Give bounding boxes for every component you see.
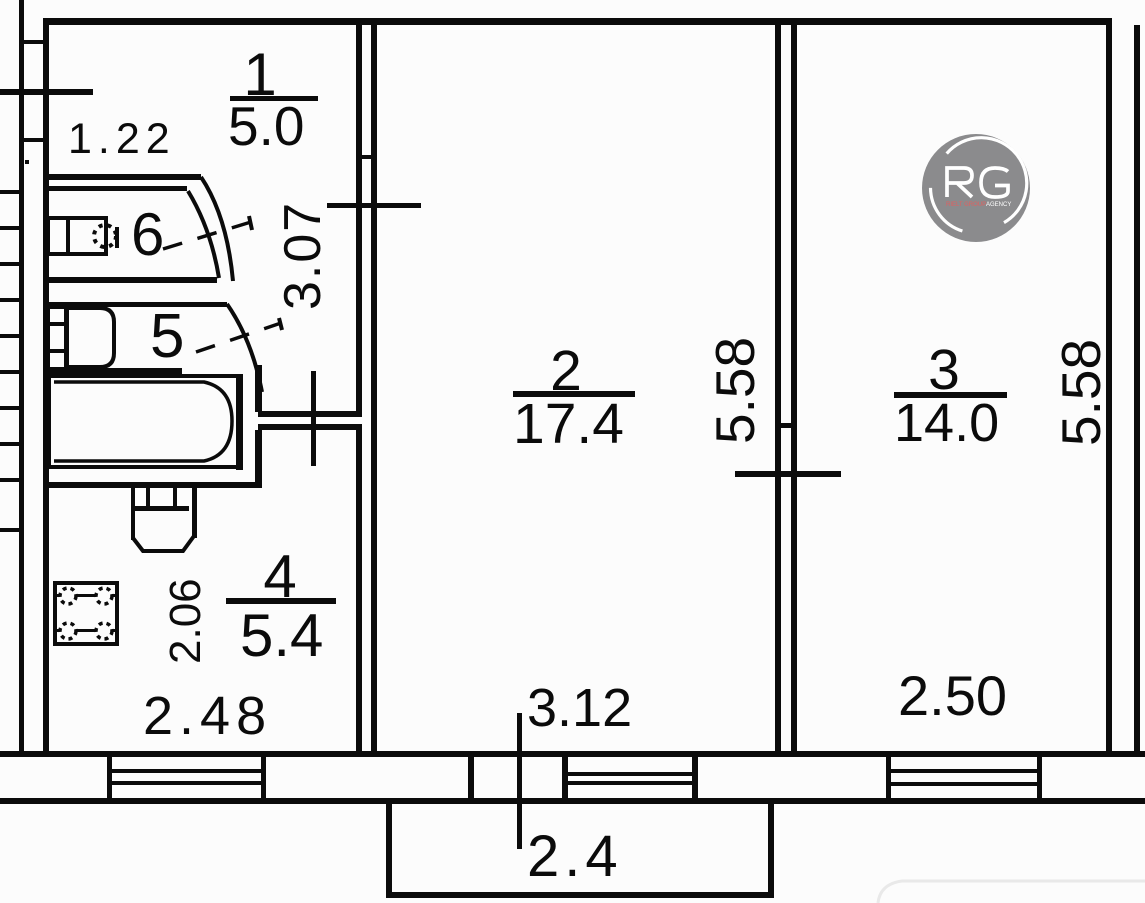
svg-text:2.48: 2.48: [143, 686, 272, 746]
stove row line bottom: [57, 629, 115, 632]
svg-text:5.4: 5.4: [240, 602, 323, 669]
hall-room2 wall right line: [371, 25, 377, 752]
hall wall upper segment: [255, 365, 262, 412]
stove row line top: [57, 594, 115, 597]
balcony window cap right: [692, 757, 698, 798]
apartment left wall: [43, 18, 49, 757]
stair ladder tick 4: [0, 298, 24, 302]
svg-text:17.4: 17.4: [513, 392, 624, 456]
wall tie tick lower: [19, 138, 49, 142]
room2-room3 wall left line: [775, 25, 781, 752]
toilet room top wall outer: [45, 174, 201, 180]
toilet door leaf end tick: [249, 216, 252, 230]
svg-text:2.50: 2.50: [898, 664, 1007, 727]
toilet door arc outer: [201, 177, 233, 281]
room2-room3 wall right line: [791, 25, 797, 752]
toilet door arc inner: [188, 191, 219, 278]
bottom wall inner line: [0, 798, 1145, 804]
stove burner TR: [96, 588, 112, 604]
washbasin shelf cells: [48, 307, 66, 369]
stove outline: [55, 583, 117, 644]
kitchen sink bowl bottom: [133, 536, 194, 551]
balcony window pane line 1: [568, 772, 692, 776]
RG logo: [922, 134, 1030, 242]
window room3 pane line 2: [891, 782, 1037, 786]
window room3 cap left: [886, 757, 891, 798]
window kitchen pane line 2: [112, 781, 261, 785]
logo arc long: [947, 138, 1027, 223]
toilet door leaf dashed: [163, 222, 251, 249]
washbasin bowl: [67, 308, 114, 367]
stair ladder tick 10: [0, 528, 24, 532]
logo letter R: [947, 168, 972, 197]
kitchen sink inner vertical 1: [146, 488, 150, 508]
stair wall vertical left: [19, 0, 24, 757]
bathroom bottom wall: [45, 482, 262, 488]
room2-room3 wall tie: [775, 423, 797, 428]
svg-text:AGENCY: AGENCY: [986, 202, 1011, 208]
svg-text:1.22: 1.22: [68, 115, 176, 163]
kitchen sink right side: [192, 488, 197, 538]
toilet room top wall inner: [45, 186, 187, 191]
svg-text:2.4: 2.4: [527, 824, 623, 889]
window kitchen cap right: [261, 757, 266, 798]
svg-text:5.58: 5.58: [1050, 339, 1112, 446]
label room3 underline: [894, 392, 1007, 398]
window kitchen cap left: [107, 757, 112, 798]
stove burner TL: [60, 588, 76, 604]
bathtub outer: [49, 376, 239, 467]
stair ladder tick 7: [0, 406, 24, 410]
svg-text:3.12: 3.12: [527, 678, 632, 738]
svg-text:5: 5: [150, 302, 184, 371]
stair ladder tick 6: [0, 370, 24, 374]
passage line upper: [258, 411, 362, 417]
bath door arc: [227, 304, 262, 392]
balcony bottom wall: [386, 892, 774, 898]
toilet cistern: [48, 218, 106, 254]
stair ladder tick 9: [0, 478, 24, 482]
dimension tick at y471: [735, 471, 841, 477]
svg-text:6: 6: [131, 201, 164, 268]
balcony window pane line 2: [568, 781, 692, 785]
label room1 underline: [230, 96, 318, 101]
stair ladder tick 3: [0, 262, 24, 266]
dimension line x519: [517, 713, 522, 849]
right exterior wall: [1106, 18, 1112, 757]
watermark corner curve: [878, 881, 1145, 903]
logo arc short: [931, 188, 963, 231]
washbasin shelf line 2: [48, 349, 66, 353]
balcony right wall: [768, 804, 774, 898]
hall wall lower segment: [255, 430, 262, 488]
kitchen sink inner shelf: [131, 506, 189, 511]
dimension tick at y204: [327, 203, 421, 208]
logo letter G: [981, 168, 1008, 197]
logo circle: [922, 134, 1030, 242]
toilet cistern divider: [66, 218, 70, 254]
stair ladder tick 5: [0, 334, 24, 338]
kitchen sink left side: [131, 488, 135, 540]
wall tie tick upper: [19, 40, 49, 44]
svg-text:2.06: 2.06: [161, 578, 210, 664]
dimension tick 1.22 left: [0, 89, 93, 95]
bath door leaf end tick: [279, 318, 282, 330]
bath room top wall: [45, 302, 227, 307]
window room3 pane line 1: [891, 769, 1037, 773]
top exterior wall: [43, 18, 1112, 25]
bathtub inner: [54, 382, 232, 461]
hall-room2 wall left line upper: [356, 25, 362, 412]
label room2 underline: [513, 391, 635, 397]
toilet valve dotted circle: [94, 225, 116, 247]
bath door leaf dashed: [196, 323, 281, 352]
balcony left wall: [386, 804, 392, 898]
kitchen sink inner vertical 2: [173, 488, 177, 508]
hall-room2 wall left line lower: [356, 430, 362, 752]
window kitchen pane line 1: [112, 769, 261, 773]
stair ladder tick 8: [0, 442, 24, 446]
passage line lower: [258, 424, 362, 430]
bath room bottom line: [45, 368, 182, 374]
washbasin shelf line 1: [48, 322, 66, 326]
hall-room2 wall tie: [356, 155, 377, 159]
balcony door cap left: [468, 757, 474, 798]
svg-text:3.07: 3.07: [274, 201, 332, 310]
dot mark: [25, 160, 29, 164]
neighbour wall far right: [1134, 25, 1140, 752]
label room4 underline: [226, 598, 336, 604]
balcony door cap right: [562, 757, 568, 798]
stove burner BL: [60, 623, 76, 639]
svg-text:5.0: 5.0: [228, 95, 304, 157]
svg-text:RIELT GROUP: RIELT GROUP: [946, 202, 986, 208]
stove burner BR: [96, 623, 112, 639]
stair ladder tick 1: [0, 190, 24, 194]
dimension line x313: [311, 371, 316, 466]
stair ladder tick 2: [0, 226, 24, 230]
toilet valve tick: [115, 227, 119, 248]
bottom wall outer line: [0, 751, 1145, 757]
svg-text:14.0: 14.0: [894, 393, 999, 453]
svg-text:5.58: 5.58: [704, 337, 766, 444]
toilet room bottom wall: [45, 277, 217, 283]
bathtub right thick edge: [236, 374, 243, 470]
window room3 cap right: [1037, 757, 1042, 798]
